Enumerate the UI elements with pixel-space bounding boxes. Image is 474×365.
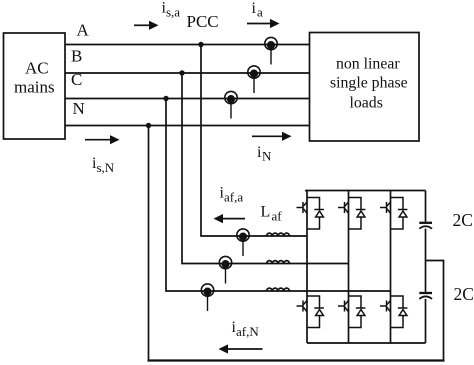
svg-text:af,a: af,a — [224, 190, 243, 205]
svg-text:non linear: non linear — [336, 56, 400, 73]
svg-text:i: i — [252, 0, 257, 17]
svg-text:B: B — [71, 47, 82, 66]
svg-text:s,a: s,a — [166, 5, 180, 20]
svg-text:N: N — [73, 99, 85, 118]
svg-text:loads: loads — [350, 95, 383, 112]
svg-text:af: af — [272, 209, 283, 224]
svg-text:a: a — [257, 5, 263, 20]
svg-text:N: N — [262, 149, 272, 164]
svg-text:mains: mains — [14, 78, 55, 97]
svg-text:2C: 2C — [453, 210, 473, 230]
svg-text:2C: 2C — [454, 284, 474, 304]
svg-text:L: L — [261, 204, 271, 221]
svg-text:A: A — [77, 21, 90, 40]
svg-text:single phase: single phase — [330, 75, 408, 92]
svg-text:C: C — [71, 70, 82, 89]
svg-text:PCC: PCC — [187, 12, 219, 31]
svg-text:af,N: af,N — [236, 324, 259, 339]
svg-text:s,N: s,N — [97, 160, 115, 175]
svg-text:AC: AC — [25, 59, 49, 78]
